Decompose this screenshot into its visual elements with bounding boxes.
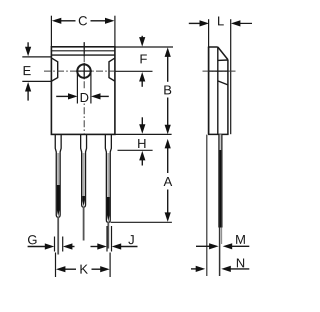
lead 3 tip wire — [107, 222, 109, 249]
F bottom extension line — [115, 70, 153, 72]
side body bottom edge — [208, 133, 229, 135]
L right extension line — [230, 19, 232, 134]
label N — [237, 258, 244, 267]
label A — [164, 177, 173, 186]
E up arrowhead — [25, 82, 31, 92]
A down arrowhead — [165, 212, 171, 222]
H up arrow tail — [141, 160, 143, 166]
label D background — [80, 91, 90, 104]
A up arrowhead — [165, 139, 171, 149]
B down arrowhead — [165, 125, 171, 135]
E bottom arrow tail — [27, 91, 29, 101]
side body back edge — [227, 60, 229, 135]
label E — [24, 66, 31, 75]
B dimension line lower — [167, 98, 169, 126]
horizontal centerline — [44, 70, 115, 72]
label H — [138, 139, 145, 148]
D right extension line — [90, 73, 92, 104]
N right arrow tail — [230, 268, 249, 270]
K right arrowhead — [100, 266, 110, 272]
B dimension line upper — [167, 56, 169, 82]
J left arrowhead — [97, 243, 107, 249]
side body front face — [208, 47, 210, 135]
D right arrow tail — [100, 95, 109, 97]
J left extension line — [106, 226, 108, 252]
label M — [236, 235, 245, 244]
lead 3 shading — [107, 153, 110, 222]
F up arrowhead — [139, 72, 145, 82]
H up arrowhead — [139, 151, 145, 161]
E upper extension line — [22, 56, 51, 58]
side lead right edge extension — [221, 228, 223, 245]
F down arrowhead — [139, 37, 145, 47]
N left arrow tail — [191, 268, 198, 270]
B up arrowhead — [165, 47, 171, 57]
M left arrowhead — [209, 243, 219, 249]
C left arrowhead — [52, 18, 62, 24]
D left extension line — [76, 73, 78, 104]
F up arrow tail — [141, 81, 143, 87]
side body top edge — [208, 46, 218, 48]
label L — [218, 16, 224, 25]
lead 1 (left) outline — [55, 134, 61, 217]
label B — [164, 85, 171, 94]
N left arrowhead — [196, 266, 206, 272]
C right arrowhead — [105, 18, 115, 24]
side view centerline — [203, 70, 238, 72]
lead 1 tip wire — [57, 217, 59, 255]
K dimension line right — [92, 268, 102, 270]
side body inner vertical (tab edge) — [217, 47, 219, 134]
lead 2 shading — [82, 153, 85, 206]
D right arrowhead — [91, 93, 101, 99]
K left extension line — [55, 253, 57, 278]
M left arrow tail — [196, 245, 211, 247]
mounting tab line upper — [51, 50, 115, 52]
K left arrowhead — [56, 266, 66, 272]
side mid chamfer line — [218, 81, 228, 85]
H down arrow tail — [141, 117, 143, 125]
mounting hole — [77, 64, 90, 77]
H down arrowhead — [139, 124, 145, 134]
lead 1 shading — [57, 153, 60, 216]
lead 2 tip wire — [83, 207, 85, 241]
L dimension line left — [189, 22, 201, 24]
right side notch — [109, 58, 115, 81]
label C — [79, 16, 87, 25]
A dimension line upper — [167, 148, 169, 174]
J right arrow tail — [121, 246, 138, 248]
C left extension line — [50, 16, 52, 47]
M right arrowhead — [223, 243, 233, 249]
E lower extension line — [22, 80, 51, 82]
hole crosshair — [83, 63, 85, 79]
N right arrowhead — [221, 266, 231, 272]
label K — [80, 265, 87, 274]
side lead — [219, 134, 222, 227]
A dimension line lower — [167, 190, 169, 214]
K dimension line left — [64, 268, 76, 270]
vertical centerline — [83, 42, 85, 133]
F top extension line — [115, 46, 173, 48]
L left extension line / body front face upper — [208, 19, 210, 47]
lead 3 (right) outline — [105, 134, 111, 222]
M right arrow tail — [232, 245, 250, 247]
L right arrowhead — [231, 20, 241, 26]
package body outline (front view) — [51, 47, 115, 135]
C right extension line — [114, 16, 116, 47]
label F — [140, 54, 146, 63]
left side notch — [52, 58, 58, 81]
tab back face line — [206, 135, 208, 276]
J left arrow tail — [91, 246, 100, 248]
A bottom extension line (lead tip extended) — [111, 221, 172, 223]
label G — [28, 235, 36, 244]
J right arrowhead — [112, 243, 122, 249]
label J — [128, 235, 133, 244]
side lead tip wire — [219, 228, 221, 277]
G left arrowhead — [45, 243, 55, 249]
H bottom extension line — [118, 149, 153, 151]
G left arrow tail — [28, 246, 47, 248]
G left extension line — [54, 237, 56, 252]
side wedge bottom line — [218, 59, 228, 61]
mounting tab line lower — [51, 54, 115, 56]
lead 2 (middle) outline — [81, 134, 87, 207]
L dimension line right — [240, 22, 253, 24]
G right arrow tail — [72, 246, 75, 248]
G right arrowhead — [63, 243, 73, 249]
F down arrow tail — [141, 36, 143, 39]
D left arrowhead — [68, 93, 78, 99]
C dimension line — [61, 20, 76, 22]
E down arrowhead — [25, 47, 31, 57]
H top extension line (body bottom extended) — [115, 133, 172, 135]
L left arrowhead — [200, 20, 210, 26]
D left arrow tail — [56, 95, 69, 97]
K right extension line — [109, 253, 111, 278]
side body top chamfer — [218, 47, 228, 60]
G right extension line — [62, 237, 64, 252]
E top arrow tail — [27, 42, 29, 48]
J right extension line — [111, 226, 113, 252]
label D — [81, 93, 89, 102]
